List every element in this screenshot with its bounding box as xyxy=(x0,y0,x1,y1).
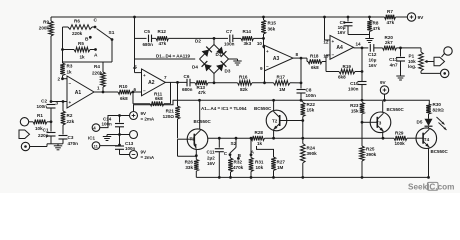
svg-text:470n: 470n xyxy=(68,141,79,146)
svg-text:6: 6 xyxy=(133,87,136,92)
svg-text:16V: 16V xyxy=(207,161,215,166)
svg-text:D4: D4 xyxy=(192,65,198,70)
svg-text:C12: C12 xyxy=(368,52,377,57)
svg-text:1M: 1M xyxy=(279,87,286,92)
svg-text:10μ: 10μ xyxy=(369,57,377,62)
svg-text:3: 3 xyxy=(55,101,58,106)
svg-text:BC550C: BC550C xyxy=(194,119,212,124)
svg-text:C: C xyxy=(94,18,98,24)
svg-text:1k: 1k xyxy=(80,55,86,60)
svg-text:R18: R18 xyxy=(310,54,319,59)
svg-text:1: 1 xyxy=(97,86,100,91)
svg-text:R23: R23 xyxy=(350,103,359,108)
svg-text:200k: 200k xyxy=(39,26,50,31)
svg-text:R27: R27 xyxy=(277,160,286,165)
svg-text:R15: R15 xyxy=(268,21,277,26)
svg-text:+: + xyxy=(143,73,146,78)
svg-text:R29: R29 xyxy=(395,130,404,135)
svg-text:C13: C13 xyxy=(389,57,398,62)
svg-text:R9: R9 xyxy=(43,20,49,25)
svg-text:R5: R5 xyxy=(78,41,84,46)
svg-text:1M: 1M xyxy=(277,165,284,170)
svg-text:R6: R6 xyxy=(74,19,80,24)
svg-text:BC550C: BC550C xyxy=(387,107,405,112)
svg-text:680n: 680n xyxy=(143,42,154,47)
svg-text:D2: D2 xyxy=(195,39,201,44)
svg-text:R7: R7 xyxy=(387,9,393,14)
svg-text:9V: 9V xyxy=(141,111,147,116)
svg-text:C10: C10 xyxy=(350,81,359,86)
svg-text:4n7: 4n7 xyxy=(390,63,398,68)
svg-text:+: + xyxy=(266,49,269,54)
svg-text:A1: A1 xyxy=(75,90,82,96)
svg-text:T4: T4 xyxy=(424,137,430,142)
svg-text:470k: 470k xyxy=(233,165,244,170)
svg-text:9: 9 xyxy=(260,66,263,71)
svg-text:6k8: 6k8 xyxy=(338,74,346,79)
svg-text:D5: D5 xyxy=(417,120,423,125)
svg-text:B: B xyxy=(85,37,89,43)
svg-text:R31: R31 xyxy=(255,160,264,165)
svg-text:R10: R10 xyxy=(119,84,128,89)
svg-text:47k: 47k xyxy=(387,20,395,25)
svg-text:R14: R14 xyxy=(243,29,252,34)
svg-text:100n: 100n xyxy=(348,87,359,92)
svg-text:C6: C6 xyxy=(184,74,190,79)
svg-text:R25: R25 xyxy=(366,147,375,152)
svg-text:R24: R24 xyxy=(307,146,316,151)
svg-text:100n: 100n xyxy=(306,93,317,98)
svg-text:9V: 9V xyxy=(418,15,425,21)
svg-text:15k: 15k xyxy=(307,108,315,113)
svg-text:10k: 10k xyxy=(256,165,264,170)
svg-text:47k: 47k xyxy=(198,90,206,95)
svg-text:220k: 220k xyxy=(92,71,103,76)
svg-text:C7: C7 xyxy=(226,29,232,34)
svg-text:16V: 16V xyxy=(337,30,346,35)
svg-text:R2: R2 xyxy=(67,113,73,118)
svg-text:A: A xyxy=(94,53,98,59)
svg-text:1k: 1k xyxy=(67,70,73,75)
svg-text:−: − xyxy=(266,64,269,69)
svg-text:15k: 15k xyxy=(351,109,359,114)
svg-text:S1: S1 xyxy=(109,30,115,36)
svg-text:2: 2 xyxy=(57,77,60,82)
svg-text:R16: R16 xyxy=(239,74,248,79)
svg-text:R12: R12 xyxy=(158,29,167,34)
svg-text:47k: 47k xyxy=(373,26,381,31)
svg-text:100n: 100n xyxy=(37,104,48,109)
svg-text:R26: R26 xyxy=(185,160,194,165)
svg-text:2k7: 2k7 xyxy=(385,40,393,45)
svg-text:T2: T2 xyxy=(272,119,278,124)
svg-text:12: 12 xyxy=(323,40,329,45)
svg-text:C5: C5 xyxy=(144,29,150,34)
svg-text:log.: log. xyxy=(408,64,416,69)
svg-text:D3: D3 xyxy=(225,69,231,74)
svg-text:6k8: 6k8 xyxy=(155,96,163,101)
svg-text:220k: 220k xyxy=(72,31,83,36)
svg-text:10k: 10k xyxy=(35,126,43,131)
svg-text:3k3: 3k3 xyxy=(244,41,252,46)
svg-text:100k: 100k xyxy=(395,141,406,146)
svg-text:R4: R4 xyxy=(94,64,100,69)
svg-text:100n: 100n xyxy=(125,146,136,151)
svg-text:390k: 390k xyxy=(307,151,318,156)
svg-text:10k: 10k xyxy=(408,59,416,64)
svg-text:R30: R30 xyxy=(433,102,442,107)
svg-text:R19: R19 xyxy=(343,64,352,69)
svg-text:7: 7 xyxy=(164,75,167,80)
svg-text:C3: C3 xyxy=(68,135,74,140)
svg-text:220p: 220p xyxy=(38,133,49,138)
svg-text:R22: R22 xyxy=(307,102,316,107)
svg-text:A4: A4 xyxy=(336,45,343,51)
svg-text:R8: R8 xyxy=(373,21,379,26)
svg-text:−: − xyxy=(332,53,335,58)
svg-text:A3: A3 xyxy=(273,56,280,62)
svg-text:D1: D1 xyxy=(216,52,222,57)
svg-text:680n: 680n xyxy=(182,87,193,92)
svg-text:A1...A4 = IC1 = TL064: A1...A4 = IC1 = TL064 xyxy=(201,106,247,111)
svg-text:C1: C1 xyxy=(43,128,49,133)
svg-text:100n: 100n xyxy=(102,122,113,127)
svg-text:A2: A2 xyxy=(148,80,155,86)
svg-text:= 2mA: = 2mA xyxy=(141,117,155,122)
svg-text:C13: C13 xyxy=(125,141,134,146)
svg-text:820Ω: 820Ω xyxy=(433,107,445,112)
svg-text:8: 8 xyxy=(296,52,299,57)
svg-text:120Ω: 120Ω xyxy=(163,114,175,119)
svg-text:2μ2: 2μ2 xyxy=(207,155,215,160)
svg-text:6k8: 6k8 xyxy=(311,65,319,70)
svg-text:47k: 47k xyxy=(159,41,167,46)
svg-text:−: − xyxy=(69,81,72,86)
svg-text:R3: R3 xyxy=(67,64,73,69)
svg-text:= 2mA: = 2mA xyxy=(141,155,155,160)
svg-text:C2: C2 xyxy=(41,99,47,104)
svg-text:1k: 1k xyxy=(257,141,263,146)
svg-text:−: − xyxy=(143,89,146,94)
svg-text:R1: R1 xyxy=(37,113,43,118)
svg-text:BC550C: BC550C xyxy=(431,149,449,154)
svg-text:6k8: 6k8 xyxy=(120,96,128,101)
svg-text:R28: R28 xyxy=(255,130,264,135)
svg-text:C11: C11 xyxy=(207,150,216,155)
svg-text:100n: 100n xyxy=(224,41,235,46)
svg-text:14: 14 xyxy=(356,41,362,46)
svg-text:390k: 390k xyxy=(366,152,377,157)
svg-text:+: + xyxy=(332,39,335,44)
svg-text:9V: 9V xyxy=(141,150,147,155)
svg-text:D1...D4 = AA119: D1...D4 = AA119 xyxy=(156,54,190,59)
svg-text:22k: 22k xyxy=(67,119,75,124)
svg-text:IC1: IC1 xyxy=(88,136,96,141)
svg-text:10: 10 xyxy=(257,41,263,46)
svg-text:9V: 9V xyxy=(380,80,387,85)
svg-text:C8: C8 xyxy=(306,88,312,93)
svg-text:82k: 82k xyxy=(240,87,248,92)
svg-text:T1: T1 xyxy=(190,137,196,142)
svg-text:BC550C: BC550C xyxy=(254,106,272,111)
svg-text:T3: T3 xyxy=(376,121,382,126)
svg-text:P1: P1 xyxy=(409,54,415,59)
svg-text:R32: R32 xyxy=(234,160,243,165)
svg-text:33k: 33k xyxy=(185,165,193,170)
svg-text:36k: 36k xyxy=(268,27,276,32)
svg-text:16V: 16V xyxy=(369,63,378,68)
svg-text:R17: R17 xyxy=(277,74,286,79)
svg-text:R21: R21 xyxy=(166,108,175,113)
svg-text:+: + xyxy=(69,100,72,105)
